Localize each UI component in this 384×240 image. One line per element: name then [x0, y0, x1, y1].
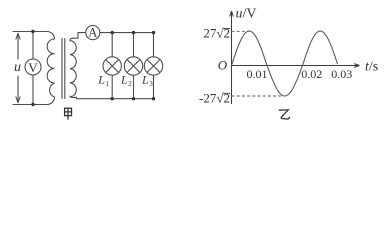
lamp L1 cross: [106, 60, 119, 73]
label yi (figure 2) drawn glyph: [279, 110, 290, 119]
svg-text:u/V: u/V: [236, 7, 257, 22]
transformer secondary coil: [70, 41, 76, 97]
dashed line peak 27sqrt2: [232, 30, 250, 32]
label L3: [141, 73, 153, 88]
label 27 sqrt 2: [203, 26, 230, 41]
wire voltmeter top lead: [32, 32, 34, 60]
wire lamp L1 top lead: [111, 33, 113, 57]
junction dot L1 top: [111, 31, 114, 34]
svg-text:L: L: [141, 73, 149, 87]
wire bottom-left terminal: [13, 97, 55, 105]
wire top-left terminal: [13, 32, 55, 40]
transformer primary coil: [47, 39, 54, 97]
svg-text:u: u: [14, 60, 21, 75]
svg-text:V: V: [28, 60, 38, 75]
label -27 sqrt 2: [199, 90, 230, 105]
wire voltmeter bottom lead: [32, 75, 34, 105]
voltmeter V1 circle: [25, 59, 41, 75]
junction dot L3 top: [152, 31, 155, 34]
svg-text:t/s: t/s: [365, 60, 378, 75]
graph vertical axis u/V: [230, 11, 234, 104]
junction dot L2 bottom: [132, 97, 135, 100]
junction dot voltmeter bottom: [31, 103, 34, 106]
lamp L3 circle: [144, 57, 162, 75]
graph horizontal axis t/s: [232, 64, 360, 68]
label L1: [97, 73, 109, 88]
svg-text:A: A: [88, 25, 97, 39]
svg-text:L: L: [120, 73, 128, 87]
dashed line trough -27sqrt2: [232, 95, 284, 97]
junction dot voltmeter top: [31, 30, 34, 33]
wire lamp L3 bottom lead: [153, 75, 155, 99]
junction dot L2 top: [132, 31, 135, 34]
svg-text:L: L: [97, 73, 105, 87]
transformer core: [62, 39, 65, 99]
svg-text:0.02: 0.02: [301, 67, 322, 81]
svg-text:O: O: [218, 57, 228, 72]
label jia (figure 1) drawn glyph: [65, 108, 72, 119]
label L2: [120, 73, 132, 88]
ammeter A1 circle: [86, 25, 100, 39]
wire lamp L2 top lead: [133, 33, 135, 57]
wire lamp L2 bottom lead: [133, 75, 135, 99]
lamp L1 circle: [103, 57, 121, 75]
junction dot L1 bottom: [111, 97, 114, 100]
svg-text:1: 1: [106, 80, 110, 88]
svg-text:0.01: 0.01: [247, 67, 268, 81]
wire secondary bottom: [70, 96, 154, 99]
wire lamp L1 bottom lead: [111, 75, 113, 99]
junction dot L3 bottom: [152, 97, 155, 100]
wire top-right from ammeter to lamps: [100, 32, 154, 34]
lamp L2 circle: [124, 57, 142, 75]
svg-text:3: 3: [149, 80, 153, 88]
svg-text:27√2: 27√2: [203, 26, 230, 41]
svg-text:-27√2: -27√2: [199, 90, 230, 105]
svg-text:2: 2: [128, 80, 132, 88]
sine curve u(t): [232, 31, 338, 96]
wire lamp L3 top lead: [153, 33, 155, 57]
lamp L3 cross: [147, 60, 160, 73]
wire secondary top to ammeter: [70, 33, 86, 41]
voltage arrow u (double-headed): [16, 33, 20, 103]
lamp L2 cross: [127, 60, 140, 73]
svg-text:0.03: 0.03: [331, 67, 352, 81]
